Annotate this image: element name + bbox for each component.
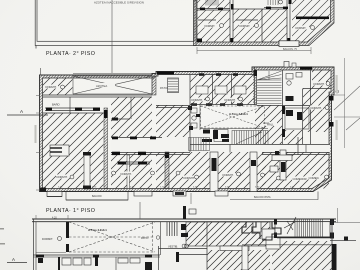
svg-text:DORMIT.: DORMIT.: [225, 98, 236, 102]
svg-text:COMED.: COMED.: [309, 176, 320, 180]
svg-text:AZOTEA: AZOTEA: [96, 84, 107, 88]
svg-text:DORMIT.: DORMIT.: [121, 172, 132, 176]
svg-text:DORMIT.: DORMIT.: [192, 98, 203, 102]
svg-text:DORMIT.: DORMIT.: [311, 106, 322, 110]
svg-text:COMEDOR: COMEDOR: [293, 177, 307, 181]
svg-text:VESTIB.: VESTIB.: [168, 245, 178, 249]
svg-text:DORMIT.: DORMIT.: [223, 173, 234, 177]
svg-text:DORMIT.: DORMIT.: [205, 24, 216, 28]
svg-text:DORMIT.: DORMIT.: [240, 24, 251, 28]
svg-text:AZOTEA INACCESIBLE S/REVISION: AZOTEA INACCESIBLE S/REVISION: [94, 1, 144, 5]
svg-text:DORMIT.: DORMIT.: [57, 175, 68, 179]
svg-text:DORMIT: DORMIT: [184, 176, 195, 180]
svg-text:PLANTA· 2° PISO: PLANTA· 2° PISO: [46, 51, 95, 57]
svg-text:BALCON: BALCON: [92, 195, 102, 198]
svg-text:BALCON .75: BALCON .75: [283, 48, 297, 51]
svg-text:HALL: HALL: [263, 121, 270, 125]
svg-text:A.Tmo 4.2x3.1: A.Tmo 4.2x3.1: [88, 228, 107, 232]
svg-text:A.Tmo 4.2x3.1: A.Tmo 4.2x3.1: [229, 112, 248, 116]
svg-text:4.20: 4.20: [52, 217, 57, 220]
svg-text:DORMIT.: DORMIT.: [296, 26, 307, 30]
svg-text:DORMIT.: DORMIT.: [42, 237, 53, 241]
svg-text:PATIO: PATIO: [141, 236, 148, 240]
svg-text:A: A: [12, 257, 15, 262]
svg-text:DORMIT.: DORMIT.: [314, 82, 325, 86]
svg-text:BALCON VISTA: BALCON VISTA: [254, 196, 271, 199]
svg-text:DORMIT.: DORMIT.: [46, 85, 57, 89]
svg-text:PLANTA· 1° PISO: PLANTA· 1° PISO: [46, 208, 95, 214]
